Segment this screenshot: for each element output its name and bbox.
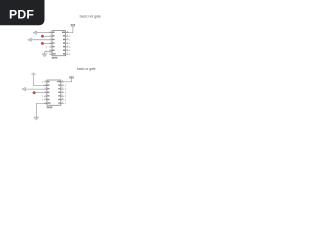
U2 pin number 11 xyxy=(62,90,63,93)
U1 pin name 1Y xyxy=(53,35,55,36)
U1 pin number 2 xyxy=(49,34,52,37)
svg-text:basic or gate: basic or gate xyxy=(77,67,96,71)
U2 right pin 11 (4Y) stub xyxy=(61,92,64,94)
U2 pin name 3A xyxy=(58,99,60,100)
no-connect mark U2 pin6 xyxy=(42,99,43,101)
power +5V P1 xyxy=(71,25,75,27)
U2 pin name 4Y xyxy=(58,92,60,93)
no-connect mark U2 pin5 xyxy=(42,95,43,97)
U1 left pin 6 (3Y) stub xyxy=(49,50,52,52)
no-connect mark U2 pin10 xyxy=(65,95,66,97)
U1 right pin 12 (6Y) stub xyxy=(66,39,69,41)
U2 part value 7432 xyxy=(47,107,52,109)
U1 right pin 9 (4A) stub xyxy=(66,50,69,52)
U1 pin name GND xyxy=(53,53,56,54)
U2 pin number 5 xyxy=(44,94,47,97)
U2 left pin 2 (1B) stub xyxy=(44,85,47,87)
input port IN3 xyxy=(22,87,26,91)
U1 pin name 1A xyxy=(53,32,55,33)
wire U1 pin7 GND wire xyxy=(45,52,52,54)
U1 pin number 4 xyxy=(49,41,52,44)
U2 pin number 10 xyxy=(62,94,63,97)
U2 right pin 12 (4A) stub xyxy=(61,88,64,90)
no-connect mark U2 pin13 xyxy=(65,85,66,87)
label +5V of P3 xyxy=(32,73,35,74)
U2 pin number 14 xyxy=(62,79,63,82)
U1 part value 7404 xyxy=(52,57,57,59)
U1 left pin 4 (2Y) stub xyxy=(49,42,52,44)
no-connect mark U1 pin6 xyxy=(46,50,47,52)
U2 pin name 3B xyxy=(58,95,60,96)
U1 pin number 8 xyxy=(67,52,68,55)
U2 left pin 4 (2A) stub xyxy=(44,92,47,94)
U2 pin name 3Y xyxy=(58,102,60,103)
node N3 (unconnected-net red marker) xyxy=(33,91,36,94)
U1 pin name 4Y xyxy=(63,53,65,54)
U2 pin name 2B xyxy=(48,95,50,96)
U1 pin number 10 xyxy=(67,44,68,47)
no-connect mark U1 pin13 xyxy=(69,35,70,37)
U2 pin name 1B xyxy=(48,85,50,86)
svg-text:PDF: PDF xyxy=(9,8,34,22)
wire U2 pin7 GND wire xyxy=(36,103,47,117)
U1 left pin 1 (1A) stub xyxy=(49,32,52,34)
U1 pin number 1 xyxy=(49,30,52,33)
U1 pin number 6 xyxy=(49,48,52,51)
U1 left pin 2 (1Y) stub xyxy=(49,35,52,37)
wire U2 pin4 dangling net xyxy=(34,92,47,94)
wire input net to U2 pin3 xyxy=(26,88,47,90)
no-connect mark U1 pin8 xyxy=(69,53,70,55)
ground G1 xyxy=(42,54,48,57)
U2 pin number 9 xyxy=(62,97,63,100)
U2 pin number 13 xyxy=(62,83,63,86)
U1 pin name 2A xyxy=(53,39,55,40)
U1 pin name 6A xyxy=(63,35,65,36)
U1 pin number 14 xyxy=(67,30,68,33)
U1 pin number 13 xyxy=(67,34,68,37)
U1 left pin 7 (GND) stub xyxy=(49,53,52,55)
power +5V P2 xyxy=(69,77,73,79)
IC U1 body xyxy=(52,31,66,56)
U2 pin name GND xyxy=(48,102,51,103)
U1 pin name 3A xyxy=(53,46,55,47)
U2 pin number 12 xyxy=(62,87,63,90)
U1 pin number 5 xyxy=(49,44,52,47)
U1 pin number 7 xyxy=(49,52,52,55)
U1 pin name 4A xyxy=(63,50,65,51)
U1 left pin 3 (2A) stub xyxy=(49,39,52,41)
U1 pin name VCC xyxy=(62,32,65,33)
U1 right pin 13 (6A) stub xyxy=(66,35,69,37)
U2 pin name 4A xyxy=(58,88,60,89)
wire input net to U1 pin3 xyxy=(31,39,52,41)
U2 right pin 14 (VCC) stub xyxy=(61,81,64,83)
label +5V of P1 xyxy=(71,24,75,25)
U1 right pin 8 (4Y) stub xyxy=(66,53,69,55)
svg-text:basic not gate: basic not gate xyxy=(80,15,101,19)
U2 left pin 3 (1Y) stub xyxy=(44,88,47,90)
U2 pin name 1Y xyxy=(48,88,50,89)
U2 pin number 1 xyxy=(44,79,47,82)
U2 left pin 5 (2B) stub xyxy=(44,95,47,97)
U2 right pin 8 (3Y) stub xyxy=(61,102,64,104)
U1 left pin 5 (3A) stub xyxy=(49,46,52,48)
U1 pin name 5A xyxy=(63,42,65,43)
U2 pin name 1A xyxy=(48,81,50,82)
U1 right pin 11 (5A) stub xyxy=(66,42,69,44)
node N2 (unconnected-net red marker) xyxy=(41,42,44,45)
U2 right pin 9 (3A) stub xyxy=(61,99,64,101)
no-connect mark U2 pin11 xyxy=(65,92,66,94)
wire U1 pin2 dangling net xyxy=(42,35,52,37)
no-connect mark U2 pin12 xyxy=(65,88,66,90)
U2 pin number 4 xyxy=(44,90,47,93)
U2 pin number 2 xyxy=(44,83,47,86)
wire U1 pin14 VCC to +5V rail xyxy=(66,26,73,32)
U1 right pin 10 (5Y) stub xyxy=(66,46,69,48)
U2 pin number 8 xyxy=(62,101,63,104)
wire U1 pin4 dangling net xyxy=(42,42,52,44)
wire U2 pin14 VCC to +5V rail xyxy=(61,78,72,82)
U2 pin name 2A xyxy=(48,92,50,93)
U1 pin number 9 xyxy=(67,48,68,51)
U2 pin name 2Y xyxy=(48,99,50,100)
wire +5V tie to U2 pin2 xyxy=(34,75,47,86)
input port IN1 xyxy=(33,31,37,35)
U2 left pin 7 (GND) stub xyxy=(44,102,47,104)
U1 pin name 6Y xyxy=(63,39,65,40)
U2 pin name VCC xyxy=(57,81,60,82)
no-connect mark U1 pin5 xyxy=(46,46,47,48)
U2 pin number 7 xyxy=(44,101,47,104)
PDF file-type badge xyxy=(0,0,45,25)
label +5V of P2 xyxy=(69,76,73,77)
wire input net to U1 pin1 xyxy=(37,32,52,34)
no-connect mark U1 pin12 xyxy=(69,39,70,41)
U2 pin number 3 xyxy=(44,87,47,90)
input port IN2 xyxy=(28,38,32,42)
U2 left pin 6 (2Y) stub xyxy=(44,99,47,101)
no-connect mark U2 pin8 xyxy=(65,103,66,105)
no-connect mark U1 pin10 xyxy=(69,46,70,48)
U2 right pin 13 (4B) stub xyxy=(61,85,64,87)
U1 pin name 2Y xyxy=(53,42,55,43)
no-connect mark U2 pin1 xyxy=(42,81,43,83)
U2 right pin 10 (3B) stub xyxy=(61,95,64,97)
U1 right pin 14 (VCC) stub xyxy=(66,32,69,34)
U2 pin name 4B xyxy=(58,85,60,86)
U2 pin number 6 xyxy=(44,97,47,100)
U1 pin name 3Y xyxy=(53,50,55,51)
IC U2 body xyxy=(47,80,61,105)
U1 pin number 12 xyxy=(67,37,68,40)
power +5V P3 xyxy=(31,74,35,76)
node N1 (unconnected-net red marker) xyxy=(41,35,44,38)
U1 pin number 3 xyxy=(49,37,52,40)
ground G2 xyxy=(34,117,40,120)
no-connect mark U2 pin9 xyxy=(65,99,66,101)
no-connect mark U1 pin9 xyxy=(69,50,70,52)
U1 pin name 5Y xyxy=(63,46,65,47)
U2 left pin 1 (1A) stub xyxy=(44,81,47,83)
U1 pin number 11 xyxy=(67,41,68,44)
no-connect mark U1 pin11 xyxy=(69,43,70,45)
